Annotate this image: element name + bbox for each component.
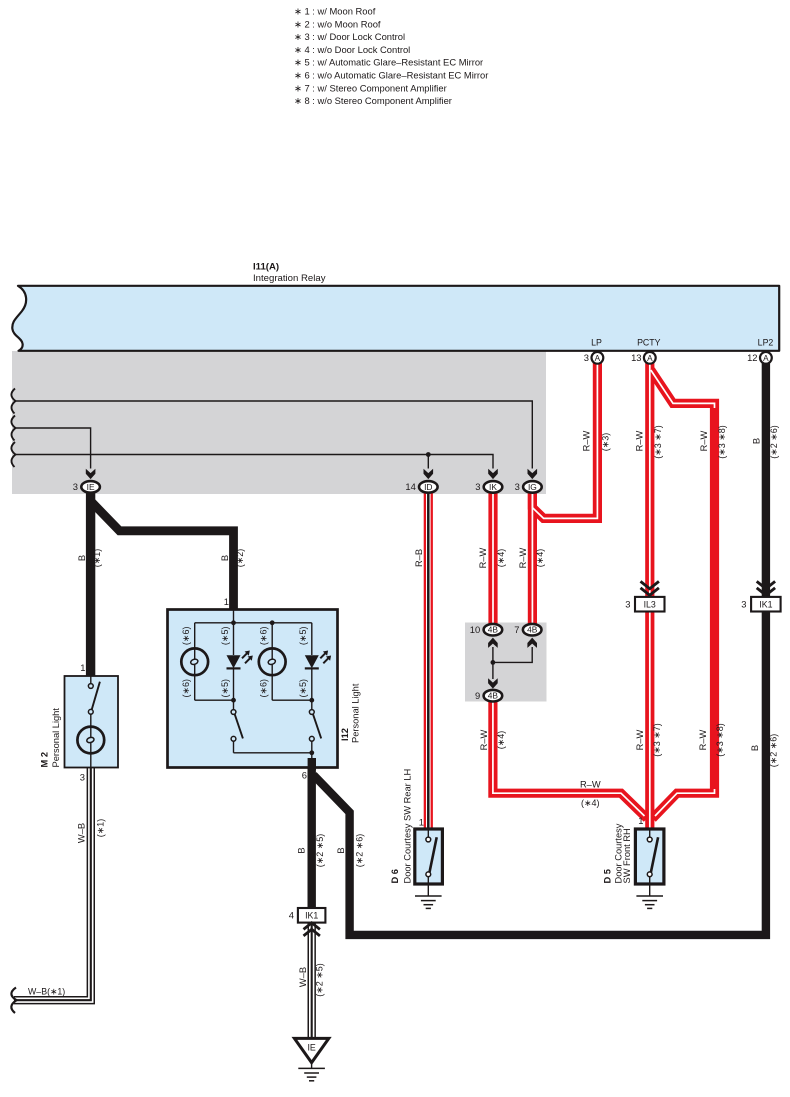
solid section of R-W right branch vertical — [711, 408, 719, 789]
M2 internal wire bottom — [90, 753, 92, 767]
svg-text:Door Courtesy SW Rear LH: Door Courtesy SW Rear LH — [402, 769, 412, 884]
svg-text:A: A — [763, 354, 769, 363]
connector pin PCTY (13 A) — [644, 352, 656, 364]
svg-text:I12: I12 — [340, 728, 350, 741]
svg-text:PCTY: PCTY — [637, 338, 661, 348]
svg-text:3: 3 — [80, 772, 85, 783]
wire B (*2) from IE branch to I12 pin 1 — [91, 501, 234, 610]
svg-text:W–B: W–B — [76, 823, 86, 843]
svg-text:∗ 3 : w/ Door Lock Control: ∗ 3 : w/ Door Lock Control — [294, 31, 405, 42]
svg-text:LP2: LP2 — [758, 338, 774, 348]
legend note list — [294, 6, 488, 107]
wire internal to IG (thin) — [14, 401, 532, 469]
junction connector 4B shaded area — [465, 623, 547, 702]
svg-text:R–W: R–W — [635, 729, 645, 750]
wire R-W (*3 *8) branch from PCTY to right vertical run — [651, 370, 715, 819]
junction dot I12 bottom rail 2 — [309, 698, 314, 703]
wire R-W (*3 *7) from PCTY through IL3 to D5 pin 1 — [645, 360, 654, 829]
svg-text:Personal Light: Personal Light — [351, 683, 361, 743]
ground at D5 — [649, 884, 651, 896]
svg-text:R–W: R–W — [580, 779, 601, 789]
connector IK1 bottom (pin 4) with chevron arrows — [298, 908, 326, 923]
svg-text:A: A — [647, 354, 653, 363]
svg-text:∗ 6 : w/o Automatic Glare–Resi: ∗ 6 : w/o Automatic Glare–Resistant EC M… — [294, 70, 488, 81]
arrow into IK — [488, 469, 498, 479]
switch 1 in I12 — [231, 710, 236, 715]
LED 2 in I12 — [305, 655, 319, 668]
wire break squiggle at W-B (*1) end — [11, 988, 16, 1014]
svg-text:1: 1 — [224, 596, 229, 607]
svg-text:4B: 4B — [527, 625, 538, 635]
white stripe of R-W LP wire — [532, 360, 597, 518]
LED 1 in I12 — [227, 655, 241, 668]
svg-text:D 5: D 5 — [603, 869, 613, 883]
ground symbol below IE — [311, 1063, 313, 1069]
wire stem to ID — [427, 455, 429, 469]
arrow up into 4B pin 7 — [527, 638, 537, 648]
arrow up into 4B pin 10 — [488, 638, 498, 648]
integration relay I11(A) block — [12, 286, 779, 351]
svg-text:(∗2 ∗6): (∗2 ∗6) — [355, 834, 365, 868]
I12 bottom out wires — [233, 741, 235, 753]
white stripe of R-W IK wire — [492, 489, 494, 624]
switch in D5 — [647, 837, 652, 842]
svg-text:(∗6): (∗6) — [259, 627, 269, 646]
switch in D6 — [426, 837, 431, 842]
connector IK1 top right (pin 3) with chevron arrows — [757, 581, 775, 588]
svg-text:(∗3 ∗8): (∗3 ∗8) — [715, 723, 725, 757]
svg-text:M 2: M 2 — [40, 752, 50, 768]
svg-text:3: 3 — [475, 481, 480, 492]
svg-text:14: 14 — [405, 481, 415, 492]
svg-text:(∗6): (∗6) — [181, 679, 191, 698]
svg-text:(∗4): (∗4) — [581, 798, 600, 808]
arrow into IG — [528, 469, 538, 479]
svg-text:ID: ID — [424, 482, 432, 492]
svg-text:3: 3 — [741, 599, 746, 610]
svg-text:4: 4 — [289, 910, 294, 921]
svg-text:I11(A): I11(A) — [253, 262, 279, 273]
wire B (*2 *5) from I12 pin 6 to IK1 connector — [308, 764, 316, 909]
svg-text:3: 3 — [515, 481, 520, 492]
svg-text:∗ 5 : w/ Automatic Glare–Resis: ∗ 5 : w/ Automatic Glare–Resistant EC Mi… — [294, 57, 483, 68]
svg-text:LP: LP — [591, 338, 602, 348]
connector pin LP2 (12 A) — [760, 352, 772, 364]
svg-text:1: 1 — [80, 662, 85, 673]
wire break squiggle at IE wire — [11, 416, 15, 441]
svg-text:(∗2 ∗5): (∗2 ∗5) — [315, 834, 325, 868]
svg-text:R–W: R–W — [479, 729, 489, 750]
svg-text:(∗1): (∗1) — [92, 549, 102, 568]
svg-text:(∗3 ∗7): (∗3 ∗7) — [653, 425, 663, 459]
white stripe of R-W right branch — [651, 370, 715, 816]
svg-text:(∗6): (∗6) — [181, 627, 191, 646]
svg-text:(∗4): (∗4) — [496, 549, 506, 568]
svg-text:R–W: R–W — [581, 430, 591, 451]
svg-text:B: B — [220, 555, 230, 561]
svg-text:1: 1 — [638, 815, 643, 826]
connector ID (pin 14) — [419, 481, 438, 493]
svg-text:B: B — [297, 847, 307, 853]
arrow into ID — [424, 469, 434, 479]
component D6 Door Courtesy SW Rear LH box — [415, 829, 443, 884]
svg-text:∗ 1 : w/ Moon Roof: ∗ 1 : w/ Moon Roof — [294, 6, 376, 17]
I12 internal top rail — [233, 610, 235, 623]
svg-text:7: 7 — [514, 624, 519, 635]
svg-text:(∗5): (∗5) — [298, 679, 308, 698]
svg-text:∗ 2 : w/o Moon Roof: ∗ 2 : w/o Moon Roof — [294, 18, 381, 29]
svg-text:B: B — [750, 745, 760, 751]
ground at D6 — [427, 884, 429, 896]
wire R-W (*3) from LP pin A down and left to IG — [532, 360, 597, 518]
junction dot I12 at pin 6 rail — [309, 750, 314, 755]
ground connector IE triangle — [294, 1038, 328, 1062]
switch in M2 — [88, 684, 93, 689]
junction dot at ID branch — [426, 452, 431, 457]
svg-text:IE: IE — [87, 482, 95, 492]
svg-text:SW Front RH: SW Front RH — [622, 828, 632, 883]
wire break squiggle at IG wire — [11, 389, 15, 414]
wire R-W (*4) from junction 4B pin 9 down to D5 merge — [493, 700, 647, 819]
svg-text:∗ 4 : w/o Door Lock Control: ∗ 4 : w/o Door Lock Control — [294, 44, 410, 55]
junction 4B pin 10 — [484, 624, 503, 636]
svg-text:(∗6): (∗6) — [259, 679, 269, 698]
component I12 Personal Light box — [168, 610, 338, 768]
I12 pin 6 stub — [308, 758, 316, 770]
svg-text:IG: IG — [528, 482, 537, 492]
svg-text:4B: 4B — [488, 691, 499, 701]
svg-text:3: 3 — [625, 599, 630, 610]
wire R-B from ID to D6 pin 1 — [424, 489, 433, 829]
svg-text:Personal Light: Personal Light — [51, 708, 61, 768]
svg-text:3: 3 — [584, 352, 589, 363]
svg-text:A: A — [595, 354, 601, 363]
wire R-W (*4) from IK to junction 4B pin 10 — [488, 489, 497, 624]
svg-text:∗ 7 : w/ Stereo Component Ampl: ∗ 7 : w/ Stereo Component Amplifier — [294, 82, 447, 93]
svg-text:(∗3 ∗8): (∗3 ∗8) — [717, 425, 727, 459]
svg-text:B: B — [752, 438, 762, 444]
svg-text:(∗3 ∗7): (∗3 ∗7) — [652, 723, 662, 757]
arrow down into 4B pin 9 — [488, 678, 498, 688]
wire W-B (*1) from M2 pin 3 down and left to break — [14, 767, 91, 1000]
white stripe of R-W IG wire — [531, 489, 533, 624]
M2 internal wire top — [90, 676, 92, 684]
wire internal to IE (thin) — [14, 428, 91, 469]
I12 branch stems top — [194, 623, 196, 649]
switch 2 in I12 — [309, 710, 314, 715]
svg-text:IK1: IK1 — [305, 911, 318, 921]
svg-text:(∗5): (∗5) — [220, 679, 230, 698]
svg-text:(∗2 ∗5): (∗2 ∗5) — [314, 963, 324, 997]
svg-text:12: 12 — [747, 352, 757, 363]
junction 4B pin 7 — [523, 624, 542, 636]
arrow into IE — [86, 469, 96, 479]
wire R-W (*4) from IG to junction 4B pin 7 — [528, 489, 537, 624]
wire W-B (*2 *5) from IK1 to IE ground — [308, 921, 316, 1038]
svg-text:1: 1 — [419, 817, 424, 828]
svg-text:R–W: R–W — [634, 430, 644, 451]
svg-text:(∗2 ∗6): (∗2 ∗6) — [769, 734, 779, 768]
bulb 2 in I12 — [259, 648, 286, 675]
svg-text:B: B — [77, 555, 87, 561]
svg-text:4B: 4B — [488, 625, 499, 635]
svg-text:(∗3): (∗3) — [600, 433, 610, 452]
svg-text:10: 10 — [470, 624, 480, 635]
svg-text:IK1: IK1 — [759, 599, 772, 609]
svg-text:R–W: R–W — [478, 547, 488, 568]
junction dot I12 top rail at LED1 — [231, 620, 236, 625]
svg-text:B: B — [336, 847, 346, 853]
junction 4B pin 9 — [484, 690, 503, 702]
white stripe of R-W 4B9 run — [493, 700, 645, 816]
svg-text:R–W: R–W — [698, 729, 708, 750]
integration relay internal wiring shaded area — [12, 351, 546, 494]
connector pin LP (3 A) — [592, 352, 604, 364]
bulb 1 in I12 — [181, 648, 208, 675]
svg-text:R–W: R–W — [699, 430, 709, 451]
bulb in M2 — [77, 727, 104, 754]
wire B from LP2 pin A to IK1 — [762, 360, 770, 598]
white stripe of R-W PCTY-D5 wire — [649, 360, 651, 829]
I12 bottom stems and rails — [194, 675, 196, 700]
component M2 Personal Light box — [65, 676, 119, 768]
svg-text:IL3: IL3 — [644, 599, 656, 609]
svg-text:D 6: D 6 — [390, 869, 400, 883]
svg-text:(∗4): (∗4) — [496, 731, 506, 750]
svg-text:∗ 8 : w/o Stereo Component Amp: ∗ 8 : w/o Stereo Component Amplifier — [294, 95, 452, 106]
svg-text:W–B: W–B — [298, 967, 308, 987]
wire internal to IK / ID (thin) — [14, 455, 493, 469]
svg-text:(∗5): (∗5) — [298, 627, 308, 646]
svg-text:9: 9 — [475, 690, 480, 701]
junction dot I12 top rail at bulb 2 — [270, 620, 275, 625]
connector IE (pin 3) — [81, 481, 100, 493]
component D5 Door Courtesy SW Front RH box — [635, 829, 664, 884]
svg-text:(∗2): (∗2) — [235, 549, 245, 568]
svg-text:(∗2 ∗6): (∗2 ∗6) — [769, 425, 779, 459]
svg-text:3: 3 — [73, 481, 78, 492]
svg-text:(∗4): (∗4) — [535, 549, 545, 568]
svg-text:R–B: R–B — [414, 549, 424, 567]
svg-text:6: 6 — [302, 770, 307, 781]
svg-text:R–W: R–W — [518, 547, 528, 568]
svg-text:Integration Relay: Integration Relay — [253, 273, 326, 284]
svg-text:IK: IK — [489, 482, 497, 492]
wire B (*1) from IE to M2 pin 1 — [86, 489, 95, 676]
svg-text:(∗5): (∗5) — [220, 627, 230, 646]
svg-text:(∗1): (∗1) — [95, 819, 105, 838]
4B junction internal wires — [493, 647, 532, 662]
wire B (*2 *6) branch from I12 pin 6 along bottom to IK1 connector — [314, 610, 766, 935]
connector IL3 (pin 3) with chevron arrows — [641, 581, 659, 588]
connector IG (pin 3) — [523, 481, 542, 493]
wire break squiggle at IK wire — [11, 442, 15, 467]
M2 internal wire mid — [90, 714, 92, 726]
svg-text:IE: IE — [307, 1043, 315, 1053]
svg-text:13: 13 — [631, 352, 641, 363]
connector IK (pin 3) — [484, 481, 503, 493]
svg-text:W–B(∗1): W–B(∗1) — [28, 987, 65, 997]
